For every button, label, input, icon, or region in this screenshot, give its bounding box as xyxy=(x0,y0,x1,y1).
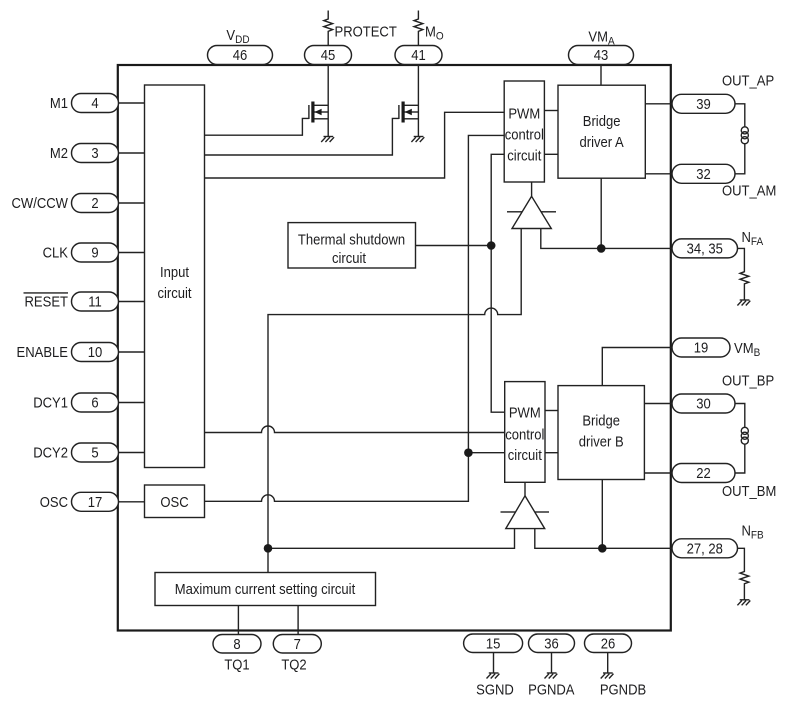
resistor RNFA below pin 34,35 xyxy=(738,248,749,299)
pin 15 SGND xyxy=(464,634,523,653)
ground below Q2 xyxy=(411,137,424,143)
svg-text:TQ2: TQ2 xyxy=(281,656,307,673)
thermal shutdown circuit block xyxy=(288,223,416,268)
pin 10 ENABLE xyxy=(72,343,119,362)
svg-text:NFB: NFB xyxy=(742,522,764,542)
wire CLK pin to input circuit xyxy=(119,252,145,254)
svg-text:PROTECT: PROTECT xyxy=(335,23,398,40)
wire input circuit to PWM control circuit A top input xyxy=(205,112,505,178)
junction dot thermal net xyxy=(487,241,496,250)
wire pin 26 to ground xyxy=(607,652,609,673)
wire ENABLE pin to input circuit xyxy=(119,351,145,353)
wire branch from OSC net to PWM B circuit input xyxy=(468,452,504,454)
svg-text:4: 4 xyxy=(91,94,98,111)
junction dot NFB / bridge B xyxy=(598,544,607,553)
svg-text:26: 26 xyxy=(601,635,616,652)
inductor LA between OUT_AP and OUT_AM xyxy=(735,104,745,174)
pin 32 OUT_AM xyxy=(672,164,735,183)
svg-text:22: 22 xyxy=(696,464,711,481)
PWM control circuit B block (U2) xyxy=(505,382,545,483)
svg-text:DCY1: DCY1 xyxy=(33,394,68,411)
svg-text:27, 28: 27, 28 xyxy=(687,540,723,557)
pin 8 TQ1 xyxy=(213,635,261,654)
pin 19 VMB xyxy=(672,338,730,357)
wire DCY1 pin to input circuit xyxy=(119,402,145,404)
svg-text:10: 10 xyxy=(88,343,103,360)
wire bridge B to pin 30 xyxy=(644,403,672,405)
svg-text:39: 39 xyxy=(696,95,711,112)
pin 30 OUT_BP xyxy=(672,394,735,413)
pin 5 DCY2 xyxy=(72,443,119,462)
transistor Q2 (MOSFET at pin 41) xyxy=(399,102,419,123)
svg-text:VMB: VMB xyxy=(734,339,760,359)
svg-text:OUT_BM: OUT_BM xyxy=(722,482,776,499)
svg-text:41: 41 xyxy=(411,46,426,63)
svg-text:DCY2: DCY2 xyxy=(33,444,68,461)
wire M2 pin to input circuit xyxy=(119,152,145,154)
svg-text:9: 9 xyxy=(91,244,98,261)
pin 39 OUT_AP xyxy=(672,94,735,113)
svg-text:Thermal shutdown: Thermal shutdown xyxy=(298,230,405,247)
wire PWM A to bridge A stub 1 xyxy=(544,110,558,112)
svg-text:43: 43 xyxy=(594,46,609,63)
svg-text:OSC: OSC xyxy=(40,493,68,510)
wire VMA pin to bridge driver A xyxy=(600,65,602,86)
svg-text:6: 6 xyxy=(91,394,98,411)
svg-text:OUT_BP: OUT_BP xyxy=(722,372,774,389)
ground below pin 15 SGND xyxy=(487,673,500,679)
IC outer boundary box xyxy=(118,65,671,631)
svg-text:Maximum current setting circui: Maximum current setting circuit xyxy=(175,580,356,597)
wire M1 pin to input circuit xyxy=(119,102,145,104)
svg-text:OSC: OSC xyxy=(160,493,188,510)
wire PWM B to bridge B stub 2 xyxy=(545,452,558,454)
svg-text:5: 5 xyxy=(91,444,98,461)
svg-text:11: 11 xyxy=(88,293,102,310)
wire comparator A right input to NFA line xyxy=(541,229,673,249)
junction dot NFB left node xyxy=(264,544,273,553)
pin 11 RESET (active low) xyxy=(72,292,119,311)
svg-text:control: control xyxy=(505,126,544,143)
pin 36 PGNDA xyxy=(529,634,575,653)
svg-text:SGND: SGND xyxy=(476,681,514,698)
wire CW/CCW pin to input circuit xyxy=(119,202,145,204)
svg-text:36: 36 xyxy=(544,635,559,652)
pin 43 VMA xyxy=(569,46,634,65)
junction dot NFA / bridge A xyxy=(597,244,606,253)
wire input circuit to PWM control circuit B control input (hop over node wire) xyxy=(205,426,505,432)
wire comparator B right input to NFB pin xyxy=(535,529,673,549)
pin 26 PGNDB xyxy=(585,634,632,653)
svg-text:46: 46 xyxy=(233,46,248,63)
wire DCY2 pin to input circuit xyxy=(119,452,145,454)
svg-text:45: 45 xyxy=(321,46,336,63)
svg-text:PGNDB: PGNDB xyxy=(600,681,646,698)
wire RESET pin to input circuit xyxy=(119,301,145,303)
svg-text:17: 17 xyxy=(88,493,103,510)
svg-text:RESET: RESET xyxy=(25,293,69,310)
bridge driver A block xyxy=(558,85,645,178)
pin 17 OSC xyxy=(72,492,119,511)
svg-text:circuit: circuit xyxy=(508,446,542,463)
wire pin 45 vertical through Q1 xyxy=(327,65,329,137)
wire max current box to pin 8 xyxy=(237,605,239,634)
svg-text:circuit: circuit xyxy=(507,147,541,164)
svg-text:19: 19 xyxy=(694,339,709,356)
svg-text:driver B: driver B xyxy=(579,433,624,450)
wire bridge A to pin 32 xyxy=(645,173,672,175)
svg-text:15: 15 xyxy=(486,635,501,652)
wire bridge A to pin 39 xyxy=(645,103,672,105)
maximum current setting circuit block xyxy=(155,573,376,606)
wire input circuit to Q1 gate xyxy=(205,118,309,135)
svg-text:ENABLE: ENABLE xyxy=(17,343,68,360)
wire thermal shutdown output xyxy=(416,245,492,247)
svg-text:circuit: circuit xyxy=(157,284,191,301)
svg-text:VMA: VMA xyxy=(588,28,615,48)
svg-text:Bridge: Bridge xyxy=(582,412,620,429)
bridge driver B block xyxy=(558,386,644,480)
svg-text:M1: M1 xyxy=(50,94,68,111)
input circuit block xyxy=(145,85,205,468)
svg-text:OUT_AP: OUT_AP xyxy=(722,72,774,89)
pin 27,28 NFB xyxy=(672,539,738,558)
svg-text:VDD: VDD xyxy=(226,26,249,46)
ground below Q1 xyxy=(321,137,334,143)
pin 4 M1 xyxy=(72,94,119,113)
svg-text:MO: MO xyxy=(425,23,444,43)
pin 6 DCY1 xyxy=(72,393,119,412)
svg-text:PGNDA: PGNDA xyxy=(528,681,575,698)
wire pin 15 to ground xyxy=(493,652,495,673)
wire bridge B to pin 22 xyxy=(644,472,672,474)
wire VMB pin to bridge driver B xyxy=(602,348,672,386)
wire pin 36 to ground xyxy=(551,652,553,673)
svg-text:3: 3 xyxy=(91,144,98,161)
comparator B (current comparator, triangle) xyxy=(501,496,550,529)
pin 7 TQ2 xyxy=(273,635,321,654)
wire pin 41 vertical through Q2 xyxy=(417,65,419,137)
pin 3 M2 xyxy=(72,144,119,163)
svg-text:Bridge: Bridge xyxy=(583,112,621,129)
svg-text:CLK: CLK xyxy=(43,244,69,261)
svg-text:32: 32 xyxy=(696,165,711,182)
transistor Q1 (MOSFET at pin 45) xyxy=(309,102,328,123)
svg-text:M2: M2 xyxy=(50,144,68,161)
svg-text:TQ1: TQ1 xyxy=(224,656,250,673)
svg-text:circuit: circuit xyxy=(332,249,366,266)
pin 22 OUT_BM xyxy=(672,464,735,483)
svg-text:CW/CCW: CW/CCW xyxy=(12,194,69,211)
ground below pin 26 PGNDB xyxy=(601,673,614,679)
ground below pin 36 PGNDA xyxy=(545,673,558,679)
svg-text:PWM: PWM xyxy=(508,105,540,122)
wire comparator A minus input net (hop over thermal vertical) xyxy=(268,229,521,549)
OSC block xyxy=(145,485,205,518)
comparator A (current comparator, triangle) xyxy=(507,196,556,228)
resistor R-PROTECT above pin 45 xyxy=(324,11,333,46)
wire NFB node to comparator B left input xyxy=(268,529,515,549)
pin 46 VDD xyxy=(208,46,273,65)
PWM control circuit A block (U1) xyxy=(504,81,544,182)
wire PWM B output to comparator B xyxy=(524,482,526,496)
svg-text:control: control xyxy=(505,426,544,443)
wire thermal net vertical to PWM A circuit input and PWM B top input xyxy=(491,154,504,412)
wire input circuit to Q2 gate xyxy=(205,118,399,155)
junction dot OSC net branch xyxy=(464,448,473,457)
inductor LB between OUT_BP and OUT_BM xyxy=(732,404,745,474)
svg-text:OUT_AM: OUT_AM xyxy=(722,182,776,199)
svg-text:NFA: NFA xyxy=(742,228,764,248)
wire bridge driver A bottom to NFA node xyxy=(600,178,602,248)
wire max current box to pin 7 xyxy=(297,605,299,634)
ground below resistor RNFA xyxy=(737,300,750,306)
wire NFB node to maximum current setting circuit xyxy=(267,548,269,572)
svg-text:8: 8 xyxy=(233,635,240,652)
wire OSC pin to OSC block xyxy=(119,501,145,503)
wire PWM A output to comparator A xyxy=(531,182,533,197)
svg-text:Input: Input xyxy=(160,263,189,280)
pin 9 CLK xyxy=(72,243,119,262)
svg-text:PWM: PWM xyxy=(509,404,541,421)
wire PWM A to bridge A stub 2 xyxy=(544,153,558,155)
wire bridge driver B bottom to NFB node xyxy=(601,480,603,549)
svg-text:2: 2 xyxy=(91,194,98,211)
ground below resistor RNFB xyxy=(737,600,750,606)
svg-text:34, 35: 34, 35 xyxy=(687,240,723,257)
pin 41 MO xyxy=(395,46,442,65)
pin 2 CW/CCW xyxy=(72,194,119,213)
resistor RNFB below pin 27,28 xyxy=(738,548,749,599)
resistor R-MO above pin 41 xyxy=(414,11,423,46)
svg-text:driver A: driver A xyxy=(579,133,624,150)
wire OSC block to PWM A control input and PWM B circuit input (hop over node wire) xyxy=(205,135,505,501)
wire PWM B to bridge B stub 1 xyxy=(545,410,558,412)
svg-text:30: 30 xyxy=(696,395,711,412)
pin 34,35 NFA xyxy=(672,239,738,258)
pin 45 PROTECT xyxy=(305,46,352,65)
svg-text:7: 7 xyxy=(294,635,301,652)
